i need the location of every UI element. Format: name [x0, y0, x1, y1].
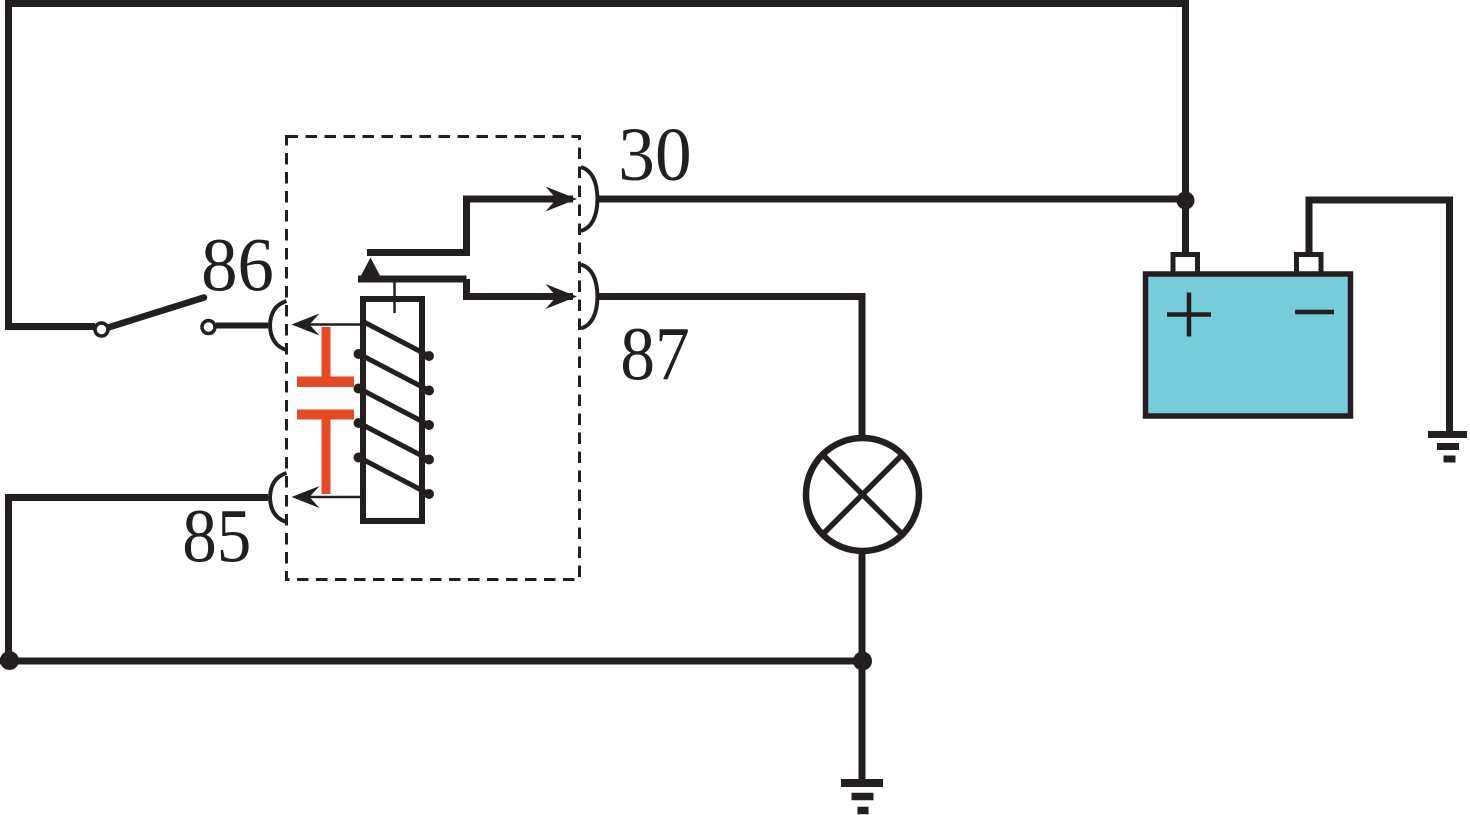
relay armature moving contact triangle [360, 258, 381, 278]
ground symbol right [1428, 435, 1467, 460]
coil winding left loop dots [354, 349, 364, 463]
battery GB positive terminal stub [1173, 255, 1198, 277]
wire lamp bottom to ground [859, 551, 866, 780]
coil winding turn 1 [364, 322, 429, 356]
capacitor C red bottom plate [297, 410, 354, 420]
svg-text:87: 87 [620, 311, 690, 396]
terminal 87 arrow [546, 284, 578, 309]
relay armature bar [358, 276, 467, 283]
relay fixed contact bar [367, 249, 467, 256]
lamp L cross line 2 [824, 456, 902, 534]
capacitor C red top plate [297, 377, 354, 388]
wire 86 external from switch [216, 323, 268, 329]
wire 86 internal thin to coil [296, 323, 364, 326]
battery GB body [1146, 274, 1351, 416]
wire battery negative to right rail [1309, 200, 1450, 431]
capacitor C red top lead [322, 327, 331, 380]
node junction dot at lamp ground [853, 652, 872, 671]
wire 85 external with left drop to bottom return [9, 498, 269, 662]
relay coil core rectangle [363, 299, 422, 521]
terminal 87 socket bracket [581, 265, 598, 329]
relay contact riser to 30 [467, 199, 574, 256]
terminal 85 socket bracket [270, 473, 287, 522]
coil winding turn 3 [364, 391, 429, 425]
terminal 86 socket bracket [270, 301, 287, 350]
terminal 30 arrow [546, 187, 578, 212]
switch S right contact circle [202, 321, 215, 334]
relay K dashed enclosure [287, 137, 580, 580]
coil winding turn 5 [364, 460, 429, 494]
node junction dot at battery positive tap [1177, 192, 1195, 210]
relay armature drop to 87 [467, 279, 574, 297]
wire top horizontal with left drop to switch and right drop to battery [9, 4, 1186, 327]
terminal 86 arrow [292, 314, 320, 336]
wire bottom horizontal return [0, 658, 862, 665]
terminal 85 arrow [292, 486, 320, 508]
battery plus sign [1167, 293, 1211, 337]
switch S lever [105, 298, 204, 329]
capacitor C red bottom lead [322, 419, 331, 494]
wire 85 internal thin to coil [296, 496, 364, 499]
relay armature link line [393, 281, 396, 313]
wire 30 external [597, 196, 1186, 203]
coil winding turn 2 [364, 357, 429, 391]
battery GB negative terminal stub [1297, 255, 1322, 277]
lamp L circle [806, 438, 919, 551]
ground symbol bottom [841, 783, 883, 811]
svg-text:30: 30 [618, 113, 691, 198]
coil winding right loop dots [424, 351, 434, 499]
node junction dot bottom left [0, 651, 19, 670]
svg-text:86: 86 [201, 224, 274, 308]
lamp L cross line 1 [824, 456, 902, 534]
coil winding turn 4 [364, 426, 429, 460]
svg-text:85: 85 [182, 494, 251, 579]
switch S left contact circle [95, 323, 108, 336]
wire 87 external with corner to lamp [597, 297, 862, 438]
battery minus sign [1295, 310, 1334, 315]
terminal 30 socket bracket [581, 167, 598, 231]
